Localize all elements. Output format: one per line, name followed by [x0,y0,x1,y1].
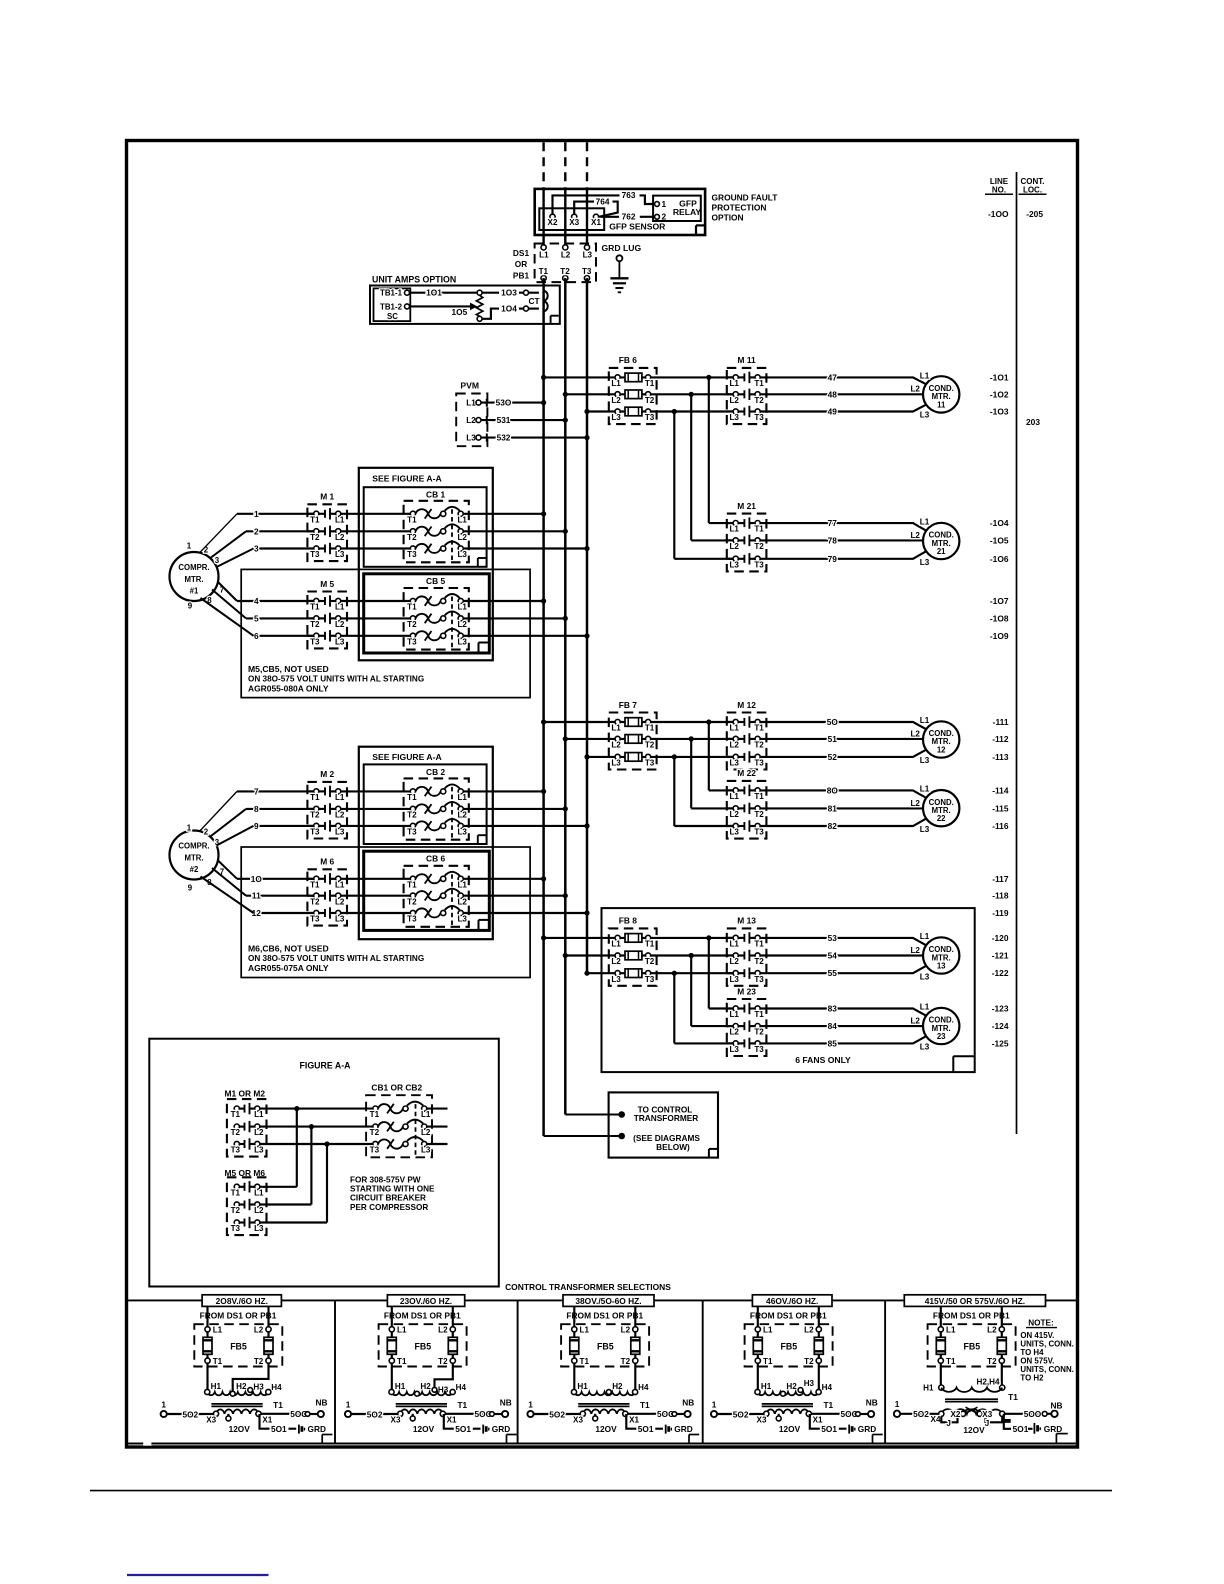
svg-text:M 22: M 22 [737,768,756,778]
svg-text:3: 3 [254,544,259,554]
svg-text:T3: T3 [310,637,320,646]
svg-text:L2: L2 [335,620,345,629]
svg-text:-1O8: -1O8 [990,613,1009,623]
svg-text:X3: X3 [569,218,579,227]
svg-text:5O2: 5O2 [182,1409,198,1419]
svg-text:L2: L2 [457,811,467,820]
svg-text:532: 532 [497,433,511,443]
svg-text:12OV: 12OV [229,1424,251,1434]
svg-text:T1: T1 [754,792,764,801]
svg-text:FB5: FB5 [414,1342,431,1352]
svg-text:78: 78 [828,535,838,545]
svg-text:T2: T2 [407,533,417,542]
svg-text:FROM DS1 OR PB1: FROM DS1 OR PB1 [933,1311,1010,1321]
svg-text:L1: L1 [611,940,621,949]
svg-text:L1: L1 [729,724,739,733]
svg-text:DS1: DS1 [513,248,530,258]
svg-text:5O2: 5O2 [913,1409,929,1419]
svg-text:T2: T2 [231,1128,241,1137]
svg-text:L3: L3 [457,637,467,646]
svg-text:L1: L1 [920,716,930,725]
svg-text:T2: T2 [987,1357,997,1366]
svg-text:CB1 OR CB2: CB1 OR CB2 [371,1083,422,1093]
svg-text:M 21: M 21 [737,501,756,511]
svg-text:MTR.: MTR. [184,853,203,862]
svg-text:L1: L1 [729,379,739,388]
svg-text:FIGURE A-A: FIGURE A-A [300,1060,352,1070]
svg-text:9: 9 [188,602,193,611]
svg-text:T2: T2 [310,811,320,820]
svg-text:23OV./6O HZ.: 23OV./6O HZ. [400,1296,452,1306]
svg-text:T3: T3 [370,1146,380,1155]
svg-text:531: 531 [497,415,511,425]
svg-text:NB: NB [316,1397,328,1407]
svg-text:-116: -116 [992,821,1009,831]
svg-text:FB5: FB5 [963,1342,980,1352]
svg-text:L3: L3 [583,250,593,259]
svg-text:T3: T3 [231,1224,241,1233]
svg-text:T3: T3 [645,759,655,768]
svg-text:L3: L3 [611,413,621,422]
svg-text:T1: T1 [754,940,764,949]
svg-text:T1: T1 [539,267,549,276]
svg-text:H4: H4 [822,1383,833,1392]
svg-text:8O: 8O [827,785,839,795]
svg-text:T3: T3 [310,550,320,559]
svg-text:T1: T1 [645,379,655,388]
svg-text:T3: T3 [582,267,592,276]
svg-text:-124: -124 [992,1021,1009,1031]
svg-text:T3: T3 [231,1146,241,1155]
svg-text:FB5: FB5 [597,1342,614,1352]
svg-text:L2: L2 [910,1017,920,1026]
svg-text:T1: T1 [407,880,417,889]
svg-text:L2: L2 [729,396,739,405]
svg-text:T1: T1 [310,603,320,612]
svg-text:RELAY: RELAY [673,207,702,217]
svg-text:L1: L1 [539,250,549,259]
svg-text:FROM DS1 OR PB1: FROM DS1 OR PB1 [200,1311,277,1321]
svg-text:762: 762 [622,212,636,222]
svg-text:L2: L2 [561,250,571,259]
svg-text:NB: NB [866,1397,878,1407]
svg-text:L1: L1 [920,372,930,381]
svg-text:M 6: M 6 [320,857,334,867]
svg-text:AGR055-080A ONLY: AGR055-080A ONLY [248,683,329,693]
svg-text:TB1-1: TB1-1 [380,289,403,298]
svg-text:GRD: GRD [492,1424,510,1434]
svg-text:TO H2: TO H2 [1020,1374,1044,1383]
svg-text:-1OO: -1OO [988,209,1009,219]
svg-text:T2: T2 [754,810,764,819]
svg-text:UNIT AMPS OPTION: UNIT AMPS OPTION [372,274,456,284]
svg-text:CB 1: CB 1 [426,490,445,500]
svg-text:82: 82 [828,821,838,831]
svg-text:L1: L1 [729,525,739,534]
svg-text:L2: L2 [254,1325,264,1334]
svg-text:L1: L1 [213,1325,223,1334]
svg-text:GRD: GRD [1044,1424,1062,1434]
svg-text:L1: L1 [335,793,345,802]
svg-text:5O: 5O [827,717,839,727]
svg-text:L3: L3 [729,975,739,984]
svg-text:T3: T3 [310,915,320,924]
svg-text:OR: OR [515,259,527,269]
svg-text:SEE FIGURE A-A: SEE FIGURE A-A [372,473,441,483]
svg-text:T3: T3 [407,550,417,559]
svg-text:ON 38O-575 VOLT UNITS WITH AL: ON 38O-575 VOLT UNITS WITH AL STARTING [248,954,424,963]
svg-text:L1: L1 [335,880,345,889]
svg-text:12OV: 12OV [779,1424,801,1434]
svg-text:9: 9 [254,821,259,831]
svg-text:T1: T1 [946,1357,956,1366]
svg-text:NOTE:: NOTE: [1028,1318,1053,1327]
svg-text:CB 5: CB 5 [426,576,445,586]
svg-text:T2: T2 [231,1206,241,1215]
svg-text:81: 81 [828,803,838,813]
svg-text:T2: T2 [254,1357,264,1366]
svg-text:X3: X3 [982,1410,992,1419]
svg-text:6: 6 [254,631,259,641]
svg-text:GROUND FAULT: GROUND FAULT [712,192,779,202]
svg-text:X3: X3 [757,1416,767,1425]
svg-text:GFP SENSOR: GFP SENSOR [609,221,666,231]
svg-text:T1: T1 [763,1357,773,1366]
svg-text:L1: L1 [920,1003,930,1012]
svg-text:T2: T2 [370,1128,380,1137]
svg-text:4: 4 [254,596,259,606]
svg-text:X3: X3 [391,1416,401,1425]
svg-text:L1: L1 [763,1325,773,1334]
svg-text:LOC.: LOC. [1023,185,1042,194]
svg-text:5O2: 5O2 [367,1409,383,1419]
svg-text:M6,CB6, NOT USED: M6,CB6, NOT USED [248,944,329,954]
svg-text:STARTING WITH ONE: STARTING WITH ONE [350,1185,435,1194]
svg-text:L2: L2 [254,1206,264,1215]
svg-text:L3: L3 [254,1224,264,1233]
svg-text:T1: T1 [754,1010,764,1019]
svg-text:-121: -121 [992,951,1009,961]
svg-text:-125: -125 [992,1038,1009,1048]
svg-text:1: 1 [187,824,192,833]
svg-text:5O1: 5O1 [821,1424,837,1434]
svg-text:L2: L2 [611,957,621,966]
svg-text:T1: T1 [213,1357,223,1366]
svg-text:-111: -111 [993,717,1009,727]
svg-text:1: 1 [712,1399,717,1409]
svg-text:415V./50 OR 575V./6O HZ.: 415V./50 OR 575V./6O HZ. [925,1296,1025,1306]
svg-text:L1: L1 [457,880,467,889]
svg-text:55: 55 [828,968,838,978]
svg-text:-1O6: -1O6 [990,554,1009,564]
svg-text:T2: T2 [407,620,417,629]
svg-text:L3: L3 [729,1045,739,1054]
svg-text:L2: L2 [335,897,345,906]
svg-text:1: 1 [254,509,259,519]
svg-text:M 1: M 1 [320,492,334,502]
svg-text:T2: T2 [645,396,655,405]
svg-text:-112: -112 [992,734,1009,744]
svg-text:OPTION: OPTION [712,212,744,222]
svg-text:L1: L1 [254,1110,264,1119]
svg-text:GRD: GRD [858,1424,876,1434]
svg-text:#1: #1 [190,586,199,595]
svg-text:L3: L3 [729,560,739,569]
svg-text:PER COMPRESSOR: PER COMPRESSOR [350,1203,428,1212]
svg-text:H4: H4 [271,1383,282,1392]
svg-text:L2: L2 [621,1325,631,1334]
svg-text:T2: T2 [407,811,417,820]
svg-text:H2,H4: H2,H4 [977,1378,1000,1387]
svg-text:47: 47 [828,372,838,382]
svg-text:T3: T3 [754,560,764,569]
svg-text:5O2: 5O2 [549,1409,565,1419]
svg-text:85: 85 [828,1038,838,1048]
svg-text:48: 48 [828,389,838,399]
svg-text:T1: T1 [231,1110,241,1119]
svg-text:M1 OR M2: M1 OR M2 [225,1089,266,1099]
svg-text:L1: L1 [335,515,345,524]
svg-text:T3: T3 [754,413,764,422]
svg-text:L1: L1 [729,1010,739,1019]
svg-text:12OV: 12OV [413,1424,435,1434]
svg-text:1O5: 1O5 [452,307,468,317]
svg-text:L1: L1 [729,940,739,949]
svg-text:11: 11 [937,400,946,409]
svg-text:-118: -118 [992,891,1009,901]
svg-text:1: 1 [161,1399,166,1409]
svg-text:L3: L3 [335,915,345,924]
svg-text:L2: L2 [910,946,920,955]
svg-text:X2: X2 [548,218,558,227]
svg-text:L2: L2 [729,1028,739,1037]
svg-text:13: 13 [937,962,946,971]
svg-text:2O8V./6O HZ.: 2O8V./6O HZ. [216,1296,268,1306]
svg-text:H1: H1 [211,1382,222,1391]
svg-text:L2: L2 [457,897,467,906]
svg-text:9: 9 [188,884,193,893]
svg-text:83: 83 [828,1004,838,1014]
svg-text:X2: X2 [950,1410,960,1419]
svg-text:T1: T1 [754,724,764,733]
svg-text:M 11: M 11 [738,355,756,365]
svg-text:79: 79 [828,554,838,564]
svg-text:T1: T1 [231,1188,241,1197]
svg-text:X3: X3 [573,1416,583,1425]
svg-text:H4: H4 [456,1383,467,1392]
svg-text:T2: T2 [754,741,764,750]
svg-text:-1O7: -1O7 [990,596,1009,606]
svg-text:-123: -123 [992,1004,1009,1014]
svg-text:T2: T2 [754,396,764,405]
svg-text:L2: L2 [804,1325,814,1334]
svg-text:L2: L2 [910,799,920,808]
svg-text:L2: L2 [335,533,345,542]
svg-text:T1: T1 [645,724,655,733]
svg-text:M 23: M 23 [737,986,756,996]
svg-text:T2: T2 [804,1357,814,1366]
svg-text:FB5: FB5 [780,1342,797,1352]
svg-text:T2: T2 [645,741,655,750]
svg-text:L3: L3 [457,828,467,837]
svg-text:T1: T1 [310,793,320,802]
svg-text:-1O5: -1O5 [990,535,1009,545]
svg-text:T2: T2 [754,1028,764,1037]
svg-text:L1: L1 [397,1325,407,1334]
svg-text:5O1: 5O1 [271,1424,287,1434]
svg-text:ON 38O-575 VOLT UNITS WITH AL: ON 38O-575 VOLT UNITS WITH AL STARTING [248,675,424,684]
svg-text:L3: L3 [920,1043,930,1052]
svg-text:54: 54 [828,951,838,961]
svg-text:L2: L2 [466,416,476,425]
svg-text:46OV./6O HZ.: 46OV./6O HZ. [766,1296,818,1306]
svg-text:FROM DS1 OR PB1: FROM DS1 OR PB1 [384,1311,461,1321]
svg-text:5O2: 5O2 [733,1409,749,1419]
svg-text:L3: L3 [729,828,739,837]
svg-text:77: 77 [828,518,838,528]
svg-text:T3: T3 [407,637,417,646]
svg-text:L2: L2 [254,1128,264,1137]
svg-text:T2: T2 [754,542,764,551]
svg-text:L1: L1 [466,399,476,408]
svg-text:T1: T1 [1008,1392,1018,1402]
svg-text:764: 764 [596,196,610,206]
svg-text:M 2: M 2 [320,769,334,779]
svg-text:COMPR.: COMPR. [178,563,209,572]
svg-text:AGR055-075A ONLY: AGR055-075A ONLY [248,963,329,973]
svg-text:MTR.: MTR. [184,575,203,584]
svg-text:M 12: M 12 [737,700,756,710]
svg-text:L2: L2 [457,620,467,629]
svg-text:L1: L1 [457,793,467,802]
svg-text:22: 22 [937,814,946,823]
svg-text:COMPR.: COMPR. [178,841,209,850]
svg-text:23: 23 [937,1032,946,1041]
svg-text:L1: L1 [611,724,621,733]
svg-text:L3: L3 [920,972,930,981]
svg-text:5O1: 5O1 [638,1424,654,1434]
svg-text:6 FANS ONLY: 6 FANS ONLY [795,1055,851,1065]
svg-text:L3: L3 [920,411,930,420]
svg-text:H1: H1 [923,1384,934,1393]
svg-text:-113: -113 [992,752,1009,762]
svg-text:M 5: M 5 [320,579,334,589]
svg-text:84: 84 [828,1021,838,1031]
svg-text:2: 2 [204,828,209,837]
svg-text:38OV./5O-6O HZ.: 38OV./5O-6O HZ. [575,1296,641,1306]
svg-text:-205: -205 [1026,209,1043,219]
svg-text:-119: -119 [992,908,1009,918]
svg-text:T3: T3 [754,759,764,768]
svg-text:T1: T1 [645,940,655,949]
svg-text:L1: L1 [920,517,930,526]
svg-text:2: 2 [661,212,666,222]
svg-text:T1: T1 [580,1357,590,1366]
svg-text:#2: #2 [190,865,199,874]
svg-text:1: 1 [528,1399,533,1409]
svg-text:-1O4: -1O4 [990,518,1009,528]
svg-text:5: 5 [254,613,259,623]
svg-text:5O1: 5O1 [455,1424,471,1434]
svg-text:12OV: 12OV [595,1424,617,1434]
svg-text:T1: T1 [823,1400,833,1410]
svg-text:-120: -120 [992,933,1009,943]
svg-text:H3: H3 [253,1382,264,1391]
svg-text:BELOW): BELOW) [656,1142,690,1152]
svg-text:L1: L1 [457,515,467,524]
svg-text:T3: T3 [407,915,417,924]
svg-text:203: 203 [1026,417,1040,427]
svg-text:CB 6: CB 6 [426,853,445,863]
svg-text:L3: L3 [920,558,930,567]
svg-text:T1: T1 [397,1357,407,1366]
svg-text:T2: T2 [438,1357,448,1366]
svg-text:T3: T3 [645,975,655,984]
svg-text:7: 7 [254,786,259,796]
svg-text:L3: L3 [466,434,476,443]
svg-text:-1O9: -1O9 [990,631,1009,641]
svg-text:L1: L1 [457,603,467,612]
svg-text:L1: L1 [946,1325,956,1334]
svg-text:L2: L2 [729,810,739,819]
svg-text:M5,CB5, NOT USED: M5,CB5, NOT USED [248,664,329,674]
svg-text:12: 12 [937,746,946,755]
svg-text:GRD: GRD [674,1424,692,1434]
svg-text:-117: -117 [992,874,1009,884]
svg-text:SC: SC [387,312,398,321]
svg-text:L2: L2 [910,531,920,540]
svg-text:CB 2: CB 2 [426,767,445,777]
svg-text:L1: L1 [729,792,739,801]
svg-text:T2: T2 [645,957,655,966]
svg-text:5OO: 5OO [1024,1409,1042,1419]
svg-text:L3: L3 [611,975,621,984]
svg-text:49: 49 [828,407,838,417]
svg-text:T1: T1 [754,379,764,388]
svg-text:L2: L2 [910,729,920,738]
svg-text:T2: T2 [310,533,320,542]
svg-text:L3: L3 [729,413,739,422]
svg-text:T2: T2 [754,957,764,966]
svg-text:X4: X4 [931,1415,941,1424]
svg-text:L3: L3 [335,550,345,559]
svg-text:L1: L1 [920,785,930,794]
svg-text:L3: L3 [729,759,739,768]
svg-text:H2: H2 [612,1382,623,1391]
svg-text:NB: NB [682,1397,694,1407]
svg-text:T2: T2 [621,1357,631,1366]
svg-text:12OV: 12OV [963,1425,985,1435]
svg-text:X1: X1 [591,218,601,227]
svg-text:1O3: 1O3 [501,288,517,298]
svg-text:L3: L3 [457,915,467,924]
svg-text:T1: T1 [457,1400,467,1410]
svg-text:-1O2: -1O2 [990,389,1009,399]
svg-text:L2: L2 [457,533,467,542]
svg-text:PB1: PB1 [513,271,530,281]
svg-text:H1: H1 [577,1382,588,1391]
svg-text:5O1: 5O1 [1013,1424,1029,1434]
svg-text:PROTECTION: PROTECTION [712,202,767,212]
svg-text:TRANSFORMER: TRANSFORMER [634,1113,699,1123]
svg-text:L1: L1 [335,603,345,612]
svg-text:L1: L1 [254,1188,264,1197]
svg-text:L1: L1 [611,379,621,388]
svg-text:T3: T3 [754,1045,764,1054]
svg-text:L3: L3 [920,756,930,765]
svg-text:1O: 1O [251,874,263,884]
svg-text:53: 53 [828,933,838,943]
